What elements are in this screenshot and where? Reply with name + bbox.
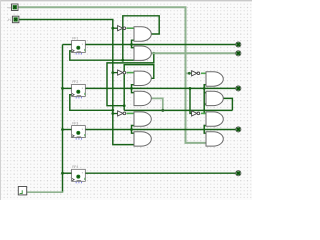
output pin O5	[236, 171, 241, 176]
inverter U7 (right, row 3)	[192, 111, 200, 116]
and gate B2 (right row2)	[206, 91, 223, 105]
svg-text:FF2: FF2	[72, 80, 78, 84]
wire: FF2 Q row to output pin O3	[86, 87, 236, 89]
inverter U6 (right, row 2)	[192, 71, 200, 76]
wire: right bracket for B3/B4 inputs	[204, 126, 206, 134]
wire: gate B2 output loop	[223, 98, 232, 110]
node: chain to FF2 D	[61, 87, 64, 90]
input pin rst (top)	[12, 4, 19, 11]
wire: chain stub to FF2 D	[63, 87, 73, 89]
node: H at inverter U1	[111, 27, 114, 30]
node: FF2 row drop to inverter U7	[189, 87, 192, 90]
and gate B1 (right row1)	[206, 72, 223, 86]
inverter U2 (mid, row 2)	[113, 70, 126, 75]
output pin O2	[236, 51, 241, 56]
output pin O1	[236, 42, 241, 47]
flip-flop FF2	[72, 80, 86, 98]
wire: chain stub to FF3 D	[63, 129, 73, 131]
window edge top	[0, 0, 252, 1]
wire: FF1 clock feedback from gate A1 output	[70, 51, 135, 60]
svg-text:FF3: FF3	[72, 121, 78, 125]
wire: FF3 Q row to right bracket	[86, 129, 236, 131]
wire: mid bracket for A1/A2 inputs	[132, 40, 135, 47]
node: FF3 row at mid bracket	[130, 128, 133, 131]
and gate B3 (right row3)	[206, 112, 223, 126]
wire: feedback from gate A1 output	[123, 16, 159, 60]
input pin H	[12, 16, 19, 23]
and gate A4 (mid row4)	[134, 91, 151, 105]
node: A4 drop onto row	[161, 109, 164, 112]
wire: D chain vertical from pin S	[62, 45, 64, 193]
wire: inverter U2 output (light)	[127, 72, 135, 74]
wire: mid bracket for A5/A6 inputs	[132, 126, 135, 134]
wire: right bracket for B1/B2 inputs	[204, 85, 206, 114]
wire: FF4 Q row to output pin O5	[86, 172, 236, 174]
wire: inverter U7 output (light)	[201, 112, 206, 114]
svg-text:rst: rst	[8, 6, 11, 10]
wire: H clock net from pin H down the middle	[19, 20, 134, 145]
and gate A1 (mid row1)	[134, 27, 151, 41]
output pin O3	[236, 86, 241, 91]
and gate A3 (mid row3)	[134, 71, 151, 85]
wire: inverter U6 output (light)	[201, 72, 206, 74]
wire: row to gate B2 output loop	[124, 109, 232, 111]
inverter U1 (mid, row 1)	[113, 26, 126, 31]
wire: gate A3 output loop to A2 lower input	[124, 65, 154, 111]
wire: gate A2 output to output pin O2 (light)	[151, 52, 236, 54]
wire: pin S to chain (light)	[27, 191, 64, 193]
node: H at inverter U2	[111, 71, 114, 74]
node: chain to FF4 D	[61, 172, 64, 175]
wire: chain stub to FF4 D	[63, 172, 73, 174]
node: H at inverter U3	[111, 112, 114, 115]
and gate A2 (mid row2)	[134, 46, 151, 60]
node: FF1 row at mid bracket	[130, 43, 133, 46]
wire: right bracket stub B2 bottom	[204, 103, 206, 105]
svg-text:FF1: FF1	[72, 36, 78, 40]
svg-text:FF4: FF4	[72, 165, 78, 169]
node: clock rail to feedback	[121, 59, 124, 62]
wire: chain corner into FF1 D	[63, 44, 73, 46]
wire: FF2 clock from H net	[70, 95, 113, 111]
and gate A6 (mid row6)	[134, 132, 151, 146]
flip-flop FF4	[72, 165, 86, 183]
wire: FF2 Q drop to inverter U7	[190, 88, 192, 113]
wire: pin rst to right column (light, value 1)	[18, 7, 207, 143]
node: FF2 row at mid bracket	[130, 87, 133, 90]
flip-flop FF1	[72, 36, 86, 54]
wire: inverter U3 output (light)	[127, 112, 135, 114]
input pin S (bottom)	[18, 187, 26, 195]
node: H at FF2 clock rail	[111, 109, 114, 112]
and gate B4 (right row4)	[206, 132, 223, 146]
wire: mid bracket for A3/A4 inputs	[132, 85, 135, 93]
node: branch join at loop arm	[123, 104, 126, 107]
wire: right bracket stub B2 top	[204, 92, 206, 94]
wire: inverter U1 output (light)	[127, 27, 135, 29]
background canvas	[0, 0, 252, 200]
node: FF2 row at right bracket	[203, 87, 206, 90]
wire: FF1 Q row to output pin O1	[86, 44, 236, 46]
and gate A5 (mid row5)	[134, 112, 151, 126]
output pin O4	[236, 127, 241, 132]
window edge left	[0, 0, 1, 200]
svg-text:H: H	[8, 18, 11, 22]
wire: gate A4 output drop (light)	[151, 98, 163, 110]
wire: gate A2 output branch down and around	[107, 53, 154, 105]
node: gate A2 output junction	[152, 52, 155, 55]
node: blob at inverter U6 input	[188, 72, 191, 75]
wire: stub into inverter U6 input	[186, 72, 192, 74]
node: chain to FF3 D	[61, 128, 64, 131]
inverter U3 (mid, row 3)	[113, 111, 126, 116]
flip-flop FF3	[72, 121, 86, 139]
